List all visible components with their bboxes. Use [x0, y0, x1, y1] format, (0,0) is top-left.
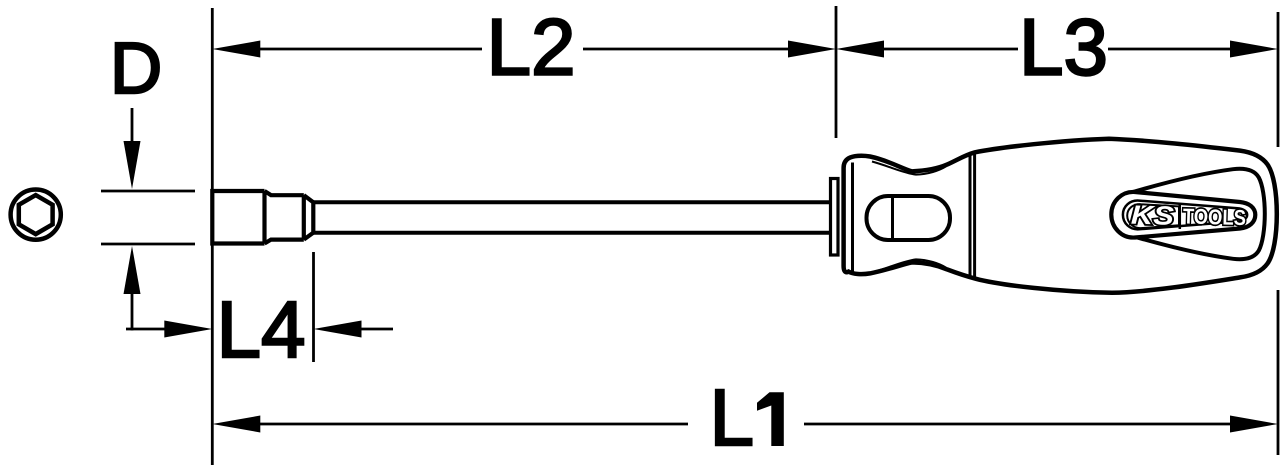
svg-text:D: D	[110, 28, 162, 109]
dimension D upper extension line	[101, 190, 195, 193]
logo capsule inner	[1123, 201, 1247, 230]
svg-text:L2: L2	[487, 3, 576, 92]
handle window	[867, 196, 951, 240]
socket body	[212, 191, 313, 244]
handle top crease	[872, 162, 946, 175]
shaft	[313, 200, 830, 204]
extension line L4 (x=313.5)	[312, 252, 315, 362]
handle bottom crease	[872, 259, 946, 272]
front view circle	[11, 190, 61, 240]
dimension L2 line	[260, 48, 482, 51]
dimension L4 right tail line	[360, 328, 393, 331]
dimension L1 right arrowhead	[1230, 416, 1278, 433]
dimension D down arrowhead	[124, 141, 141, 189]
extension line right top (handle end, x=1278)	[1277, 12, 1280, 147]
ferrule	[831, 179, 839, 256]
dimension L3 line	[884, 48, 1018, 51]
svg-text:TOOLS: TOOLS	[1183, 204, 1247, 230]
extension line right bottom	[1277, 290, 1280, 455]
dimension L3 right arrowhead	[1230, 41, 1278, 58]
dimension L2 left arrowhead	[212, 41, 260, 58]
handle ring line	[851, 163, 854, 272]
dimension D up arrow line	[131, 292, 134, 330]
logo text KS	[1131, 200, 1247, 233]
dimension D lower extension line	[101, 243, 195, 246]
dimension D up arrowhead	[124, 246, 141, 294]
extension line left (tool tip, x=212)	[211, 8, 214, 465]
handle outline	[844, 139, 1277, 293]
dimension L4 right arrowhead (points left)	[314, 321, 362, 338]
dimension L4 left tail line	[126, 328, 168, 331]
handle boundary double line	[969, 154, 972, 279]
logo divider	[1179, 203, 1182, 229]
logo KS box inner line	[1127, 204, 1179, 228]
svg-text:L4: L4	[217, 285, 306, 374]
end-cap seam	[1128, 169, 1265, 259]
logo capsule outer	[1111, 192, 1255, 238]
dimension L2 right arrowhead	[788, 41, 836, 58]
dimension L1 left arrowhead	[212, 416, 260, 433]
dimension L3 left arrowhead	[836, 41, 884, 58]
extension line middle (handle start, x=836)	[835, 6, 838, 138]
svg-text:KS: KS	[1131, 200, 1175, 231]
handle window divider	[891, 197, 894, 240]
svg-text:L: L	[710, 373, 755, 462]
svg-text:L3: L3	[1019, 3, 1108, 92]
dimension L1 line	[260, 423, 688, 426]
front view hexagon	[19, 195, 53, 234]
dimension D down arrow line	[131, 108, 134, 145]
dimension L4 left arrowhead (points right)	[164, 321, 212, 338]
